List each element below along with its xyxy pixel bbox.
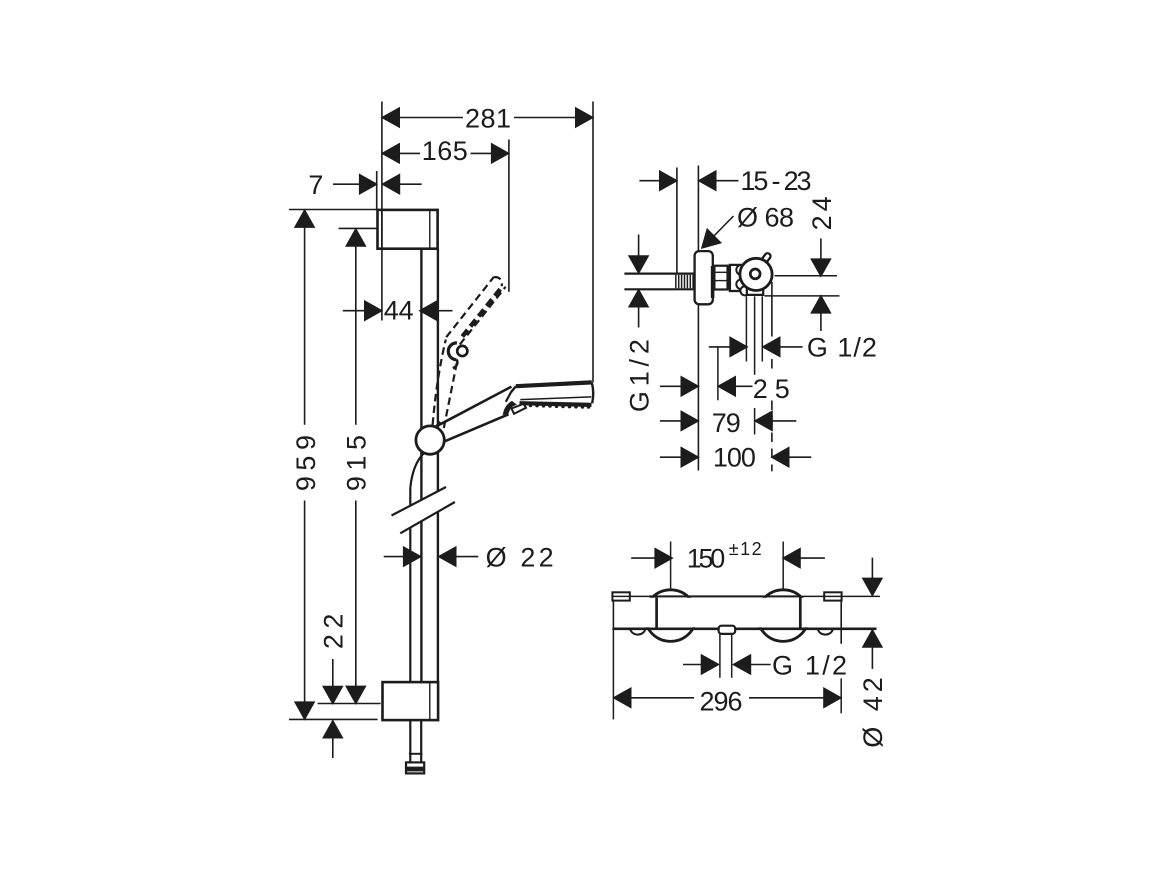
union circles [645, 590, 809, 642]
rail right line [437, 249, 439, 682]
bar side edges [613, 601, 841, 644]
extension line 915 top y228.4 [339, 227, 377, 229]
bar front edge [649, 595, 801, 597]
label diameter 68 with leader [695, 202, 795, 254]
knob nub [759, 253, 770, 265]
outlet port [747, 289, 763, 295]
nut behind escutcheon dark edge [711, 266, 715, 298]
dimension 24 arrows [765, 238, 840, 331]
knob hub [750, 269, 760, 279]
svg-text:296: 296 [700, 686, 744, 716]
svg-text:165: 165 [422, 136, 469, 166]
dimension 22 [319, 608, 349, 758]
extension line 959 top y209.5 [289, 209, 377, 211]
dimension 281 [382, 103, 592, 133]
dimension 79 [660, 408, 796, 438]
knob grip lobes [736, 265, 749, 295]
outlet nub [719, 626, 736, 634]
dashed head right edge [460, 287, 506, 345]
svg-text:G1/2: G1/2 [624, 338, 654, 412]
svg-text:281: 281 [465, 103, 512, 133]
dimension diameter 22 [384, 542, 555, 572]
svg-text:150: 150 [687, 543, 727, 573]
handshower head [516, 382, 593, 405]
dimension 296 [613, 629, 841, 720]
break marks [392, 487, 455, 533]
svg-text:5: 5 [775, 374, 791, 404]
dimension G1/2 left (pipe) [624, 235, 654, 413]
dimension 100 [660, 443, 811, 473]
head neck joint [503, 386, 526, 415]
dashed head left edge [446, 277, 493, 337]
dimension 44 [343, 296, 453, 326]
wall line [612, 627, 876, 630]
pipe bump left [630, 629, 645, 635]
hose below bracket [409, 720, 423, 762]
head spray scallops [522, 403, 590, 409]
hose end fitting [406, 762, 424, 773]
pivot ring of dashed shower [448, 343, 467, 368]
dimension 915 [341, 229, 371, 703]
dimension 165 [382, 136, 508, 166]
svg-text:15 - 23: 15 - 23 [741, 166, 813, 196]
extension line x508.9 (165 right) [508, 140, 510, 292]
dimension G1/2 right (outlet) [709, 332, 878, 362]
svg-text:100: 100 [713, 443, 757, 473]
dimension 25 [660, 374, 791, 404]
svg-text:Ø 42: Ø 42 [858, 673, 888, 748]
dashed head spray band [462, 289, 500, 337]
union nut [714, 266, 728, 290]
wall line x676.9 [676, 168, 678, 273]
extension line x376.7 (7 left) [376, 171, 378, 209]
wall bracket top [378, 210, 438, 249]
dashed handle left edge [433, 340, 446, 425]
bar end caps [657, 597, 801, 627]
hose upper curve [410, 454, 423, 489]
extension line left reference x381.9 [381, 102, 383, 321]
pipe bump right [818, 629, 833, 635]
thin front line [612, 595, 880, 597]
hose left line [409, 488, 411, 682]
svg-text:G 1/2: G 1/2 [807, 332, 878, 362]
svg-text:G 1/2: G 1/2 [772, 651, 848, 681]
svg-text:79: 79 [712, 408, 742, 438]
bar body mask [613, 598, 841, 628]
svg-text:2: 2 [753, 374, 769, 404]
svg-text:22: 22 [319, 608, 349, 649]
svg-text:915: 915 [341, 430, 371, 492]
elbow body [730, 265, 746, 291]
wall bracket bottom [383, 682, 439, 720]
knob [740, 258, 772, 290]
escutcheon [695, 251, 713, 304]
dimension 15-23 [639, 166, 812, 196]
outlet centerline [771, 282, 773, 472]
slider ball [416, 422, 444, 454]
reference line x698.4 [697, 166, 699, 471]
dimension 7 [308, 170, 421, 200]
svg-text:24: 24 [807, 192, 837, 230]
svg-text:44: 44 [384, 296, 415, 326]
pipe thread hatch [676, 275, 693, 289]
extension line A y703.5 [318, 703, 381, 705]
svg-text:959: 959 [291, 430, 321, 492]
extension line x717.9 [717, 348, 719, 401]
extension line x593 (281 right) [592, 102, 594, 383]
svg-text:Ø 22: Ø 22 [486, 542, 555, 572]
extension line B y719.4 [289, 718, 378, 720]
outlet port lines [720, 634, 732, 678]
supply pipe [624, 274, 694, 290]
svg-text:7: 7 [308, 170, 324, 200]
dimension diameter 42 [858, 558, 888, 748]
dashed handshower alternate position [433, 277, 506, 428]
dashed handle right edge [444, 359, 458, 428]
handshower handle [439, 387, 512, 442]
dimension 959 [291, 210, 321, 719]
rail left line [420, 249, 422, 682]
svg-text:±12: ±12 [729, 539, 762, 559]
outlet thread lines [746, 296, 762, 434]
svg-text:Ø 68: Ø 68 [737, 202, 795, 232]
end cover left [612, 592, 629, 600]
dimension G1/2 bottom [683, 651, 848, 681]
end cover right [824, 592, 841, 600]
dimension 150 [631, 539, 825, 589]
dashed head tip [494, 277, 502, 286]
